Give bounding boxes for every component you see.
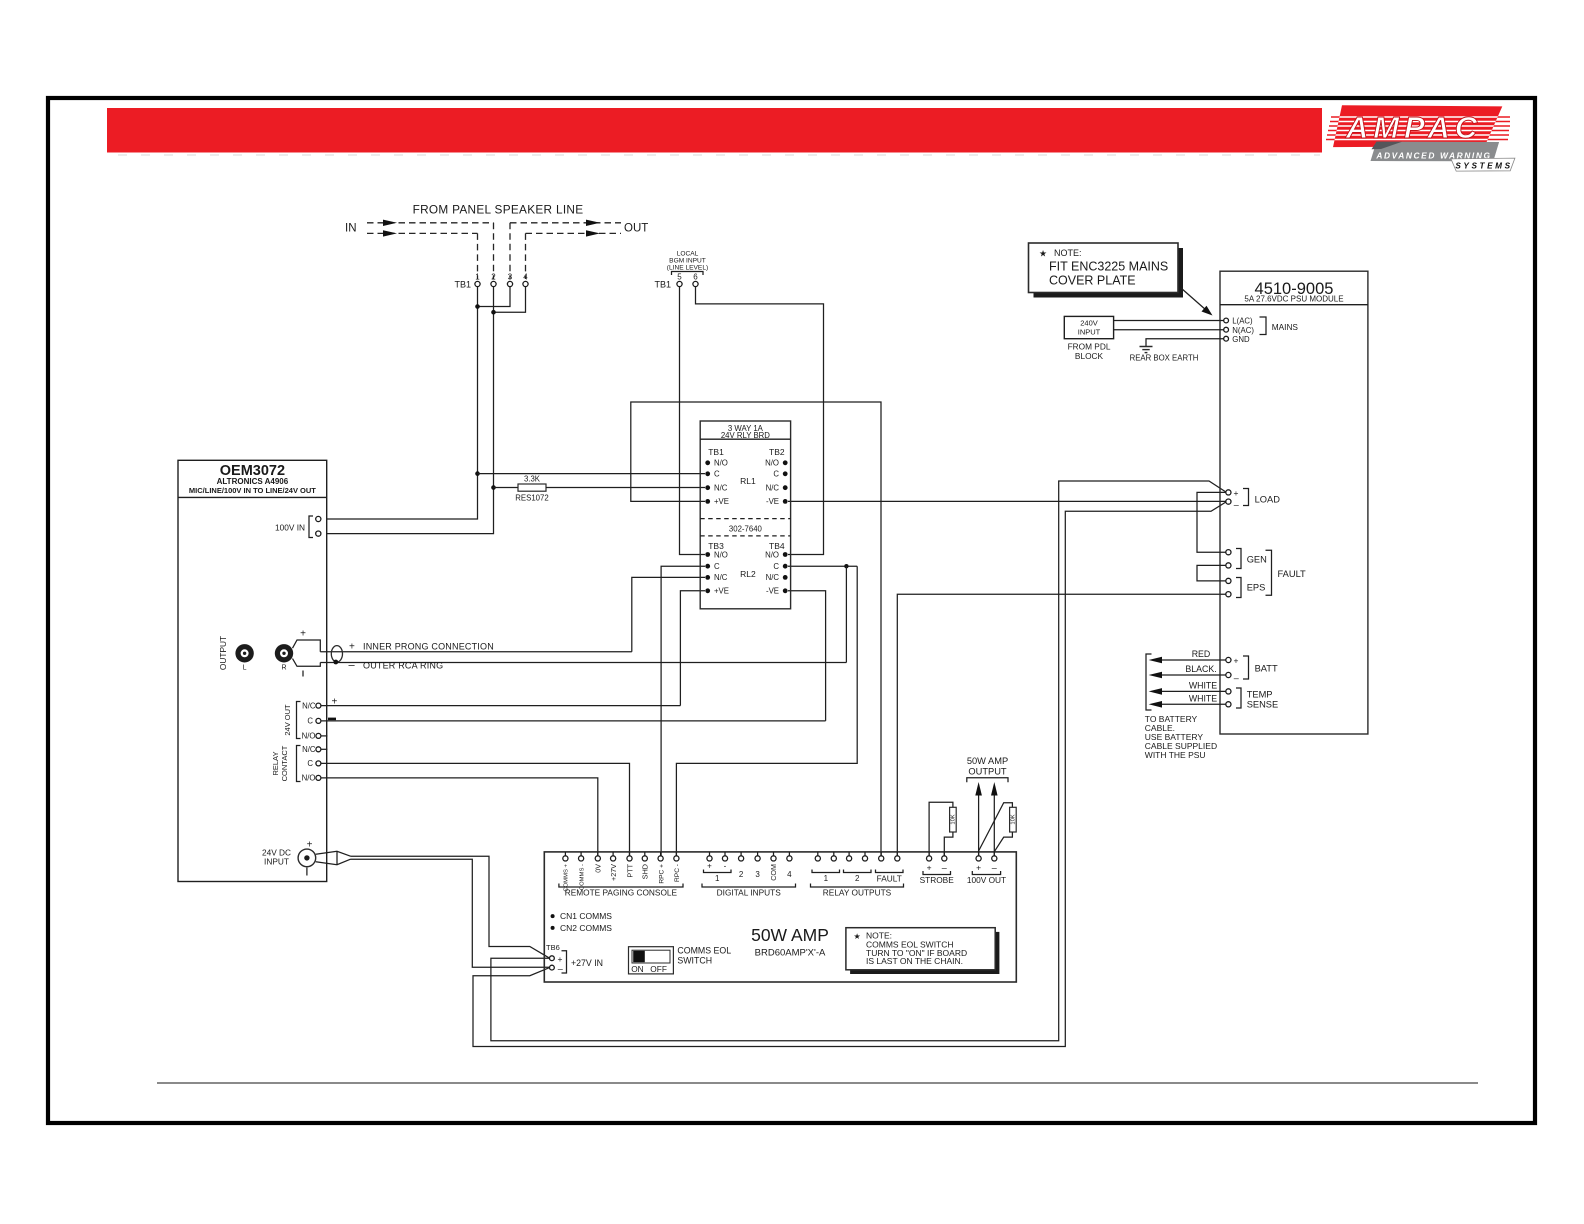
50W AMP board BRD60AMP	[544, 852, 1016, 982]
100V IN terminals	[275, 516, 321, 538]
svg-text:RES1072: RES1072	[515, 494, 548, 503]
svg-text:RPC -: RPC -	[674, 864, 681, 882]
svg-text:5: 5	[677, 273, 682, 282]
footer rule line	[157, 1082, 1478, 1084]
svg-text:50W AMP: 50W AMP	[967, 756, 1008, 766]
svg-text:+: +	[927, 863, 932, 873]
arrow from note to PSU	[1181, 288, 1206, 310]
comms eol switch	[629, 946, 732, 974]
svg-text:ON: ON	[631, 964, 643, 974]
svg-text:3: 3	[755, 870, 760, 879]
OEM3072 box	[178, 460, 327, 881]
svg-text:TEMP: TEMP	[1247, 690, 1273, 700]
FAULT bracket	[1266, 550, 1272, 595]
NOTE box: FIT ENC3225 MAINS COVER PLATE	[1029, 243, 1184, 298]
svg-text:NOTE:: NOTE:	[1054, 248, 1082, 258]
svg-text:N/O: N/O	[302, 732, 316, 741]
svg-text:BATT: BATT	[1255, 664, 1278, 674]
wire L(AC)	[1114, 320, 1224, 322]
svg-text:REAR BOX EARTH: REAR BOX EARTH	[1130, 354, 1199, 363]
battery cable note text	[1145, 714, 1217, 760]
svg-text:2: 2	[739, 870, 744, 879]
LOCAL BGM INPUT labels	[667, 251, 708, 276]
svg-text:+VE: +VE	[714, 497, 729, 506]
svg-text:N/C: N/C	[766, 484, 780, 493]
speaker line IN dashed pair	[367, 222, 494, 224]
wire relay contact N/O to amp 0V	[321, 778, 598, 856]
svg-text:-VE: -VE	[766, 497, 779, 506]
svg-text:+: +	[976, 863, 981, 873]
svg-text:N/C: N/C	[714, 573, 728, 582]
PSU GEN terminals	[1226, 549, 1267, 569]
svg-text:+: +	[1234, 656, 1239, 666]
svg-text:N/O: N/O	[765, 459, 779, 468]
svg-text:OUTPUT: OUTPUT	[968, 767, 1007, 777]
R connector - lead	[293, 659, 321, 667]
wire TB1 pin1 down to 100V IN +	[321, 287, 478, 519]
svg-text:100V OUT: 100V OUT	[967, 875, 1006, 885]
dashed risers to TB1 pins	[477, 233, 479, 279]
wire relay TB3 C down to amp RPC+	[661, 566, 705, 856]
svg-text:302-7640: 302-7640	[729, 525, 763, 534]
svg-text:RL1: RL1	[740, 476, 756, 486]
svg-text:2: 2	[855, 874, 860, 883]
remote paging console bracket	[559, 884, 683, 888]
svg-text:C: C	[773, 470, 779, 479]
remote paging console terminal labels	[564, 863, 682, 891]
wire relay TB3 N/C to inner prong wire	[632, 577, 705, 651]
svg-text:TB6: TB6	[546, 943, 560, 952]
svg-text:N/C: N/C	[714, 484, 728, 493]
battery cable arrows RED BLACK WHITE WHITE	[1146, 649, 1226, 710]
24V DC INPUT connector	[262, 840, 351, 876]
svg-text:N/C: N/C	[766, 573, 780, 582]
svg-text:REMOTE PAGING CONSOLE: REMOTE PAGING CONSOLE	[565, 888, 678, 898]
svg-text:COM: COM	[769, 864, 778, 881]
wire N(AC)	[1114, 329, 1224, 331]
svg-text:DIGITAL INPUTS: DIGITAL INPUTS	[717, 888, 782, 898]
terminal block TB1 (speaker)	[454, 273, 528, 290]
svg-text:+VE: +VE	[714, 587, 729, 596]
svg-text:SWITCH: SWITCH	[677, 956, 712, 966]
banner compression artifact	[118, 154, 1320, 156]
svg-text:RELAY: RELAY	[271, 751, 280, 775]
terminal block TB1 (BGM)	[654, 273, 698, 290]
svg-text:★: ★	[854, 932, 861, 941]
svg-text:★: ★	[1039, 249, 1047, 259]
svg-text:IS LAST ON THE CHAIN.: IS LAST ON THE CHAIN.	[866, 956, 963, 966]
wire 24V OUT - to relay TB4 -VE	[321, 720, 826, 722]
svg-text:FIT ENC3225 MAINS: FIT ENC3225 MAINS	[1049, 260, 1168, 274]
svg-text:N/C: N/C	[302, 745, 316, 754]
wire TB6 - down bottom loop up to PSU LOAD - funnel	[473, 502, 1226, 1047]
red title banner	[107, 108, 1322, 153]
page border frame	[48, 98, 1535, 1123]
svg-text:BGM INPUT: BGM INPUT	[669, 258, 706, 265]
wire 24VDC + pair to TB6 +	[351, 856, 550, 958]
svg-text:-VE: -VE	[766, 587, 779, 596]
jumper GEN to EPS	[1197, 565, 1226, 581]
PSU mains pins	[1224, 317, 1299, 344]
svg-text:10K: 10K	[1011, 814, 1017, 824]
svg-text:N/C: N/C	[302, 701, 316, 710]
svg-text:3.3K: 3.3K	[524, 475, 541, 484]
RELAY CONTACT terminal group	[271, 745, 321, 783]
svg-text:+: +	[307, 840, 313, 851]
ground symbol rear box earth	[1140, 347, 1153, 353]
svg-text:FAULT: FAULT	[877, 874, 902, 884]
svg-text:L(AC): L(AC)	[1232, 317, 1253, 326]
svg-text:C: C	[307, 717, 313, 726]
svg-text:OFF: OFF	[650, 964, 667, 974]
svg-text:SENSE: SENSE	[1247, 700, 1279, 710]
direction arrows on speaker line	[383, 220, 600, 237]
amp terminal row	[563, 852, 997, 861]
svg-text:RED: RED	[1192, 649, 1211, 659]
svg-text:MAINS: MAINS	[1272, 322, 1299, 332]
3 WAY 1A 24V RLY BRD relay board	[700, 421, 790, 609]
svg-text:OUTPUT: OUTPUT	[218, 636, 228, 670]
svg-text:TB1: TB1	[454, 280, 471, 290]
wire relay TB1 +VE bridge over to amp FAULT terminal	[631, 402, 881, 856]
wire + inner prong (to relay TB3 N/C)	[320, 651, 632, 653]
AMPAC logo	[1323, 105, 1515, 171]
svg-text:L: L	[243, 665, 247, 672]
svg-text:–: –	[1234, 673, 1239, 683]
svg-text:CN2 COMMS: CN2 COMMS	[560, 923, 612, 933]
svg-text:COMMS -: COMMS -	[579, 864, 585, 890]
svg-text:TB2: TB2	[769, 447, 785, 457]
wire TB1 pin2 down to 100V IN -	[321, 287, 494, 534]
svg-text:GND: GND	[1232, 335, 1250, 344]
50W AMP OUTPUT arrows	[967, 756, 1008, 856]
speaker line OUT dashed pair	[510, 222, 621, 224]
svg-text:BLACK.: BLACK.	[1185, 664, 1216, 674]
svg-text:4: 4	[787, 870, 792, 879]
100V OUT EOL resistor 10K	[979, 803, 1017, 852]
svg-text:0V: 0V	[594, 864, 603, 873]
svg-text:–: –	[1234, 500, 1239, 510]
svg-text:N/O: N/O	[714, 550, 728, 559]
svg-text:FROM PDL: FROM PDL	[1068, 342, 1111, 352]
PSU EPS terminals	[1226, 578, 1266, 598]
svg-text:–: –	[942, 863, 947, 873]
svg-text:WHITE: WHITE	[1189, 680, 1217, 690]
svg-text:C: C	[773, 562, 779, 571]
TB6 +27V IN terminals	[546, 943, 603, 974]
svg-text:BRD60AMP'X'-A: BRD60AMP'X'-A	[755, 948, 826, 959]
jumper pins 2-4	[494, 287, 526, 313]
relay outputs bracket	[811, 884, 904, 888]
strobe EOL resistor 10K	[929, 802, 957, 856]
svg-text:WITH THE PSU: WITH THE PSU	[1145, 750, 1206, 760]
svg-text:COVER PLATE: COVER PLATE	[1049, 274, 1136, 288]
OUTPUT RCA connectors	[218, 636, 293, 672]
svg-text:COMMS EOL: COMMS EOL	[677, 946, 731, 956]
svg-text:C: C	[714, 470, 720, 479]
CN1 CN2 COMMS bullets	[551, 911, 613, 933]
svg-text:INNER PRONG CONNECTION: INNER PRONG CONNECTION	[363, 641, 494, 651]
svg-text:24V RLY BRD: 24V RLY BRD	[721, 431, 770, 440]
svg-text:LOAD: LOAD	[1255, 495, 1281, 505]
svg-text:RPC +: RPC +	[658, 864, 665, 884]
svg-text:TB1: TB1	[654, 280, 671, 290]
svg-text:50W AMP: 50W AMP	[751, 925, 829, 945]
svg-text:FAULT: FAULT	[1278, 569, 1307, 579]
svg-text:GEN: GEN	[1247, 555, 1267, 565]
svg-text:1: 1	[475, 273, 480, 282]
svg-text:TB1: TB1	[708, 447, 724, 457]
svg-text:BLOCK: BLOCK	[1075, 351, 1104, 361]
digital inputs bracket	[702, 884, 796, 888]
wire amp FAULT2 up over to PSU EPS	[897, 594, 1226, 856]
svg-text:-: -	[724, 862, 727, 871]
stub 24V OUT N/O	[321, 735, 328, 737]
svg-text:1: 1	[715, 874, 720, 883]
svg-text:+27V: +27V	[609, 864, 618, 881]
svg-text:+: +	[300, 629, 306, 640]
svg-text:CN1 COMMS: CN1 COMMS	[560, 911, 612, 921]
PSU module 4510-9005 box	[1220, 271, 1368, 734]
svg-text:WHITE: WHITE	[1189, 693, 1217, 703]
relay outputs labels	[812, 870, 903, 884]
strobe terminal labels	[920, 863, 955, 886]
svg-text:FROM PANEL SPEAKER LINE: FROM PANEL SPEAKER LINE	[413, 203, 584, 217]
svg-text:N/O: N/O	[714, 459, 728, 468]
svg-text:240V: 240V	[1080, 319, 1098, 328]
svg-text:+: +	[349, 642, 355, 653]
svg-text:–: –	[558, 964, 563, 974]
svg-text:24V OUT: 24V OUT	[283, 704, 292, 736]
svg-text:INPUT: INPUT	[1078, 328, 1101, 337]
R connector + lead	[293, 640, 321, 652]
NOTE box: comms eol switch chain	[846, 928, 999, 974]
svg-text:IN: IN	[345, 223, 357, 235]
wire relay contact C to amp PTT	[321, 763, 630, 855]
svg-text:10K: 10K	[951, 814, 957, 824]
jumper LOAD+ to GEN	[1197, 492, 1226, 552]
svg-text:+27V IN: +27V IN	[571, 958, 603, 968]
resistor RES1072 3.3K	[475, 471, 705, 502]
svg-text:SYSTEMS: SYSTEMS	[1455, 162, 1512, 171]
svg-text:N(AC): N(AC)	[1232, 326, 1254, 335]
svg-text:OUT: OUT	[624, 223, 648, 235]
wire 24VDC - pair to TB6 -	[351, 859, 550, 967]
svg-text:INPUT: INPUT	[264, 857, 289, 867]
svg-text:STROBE: STROBE	[920, 875, 955, 885]
wire GND to rear box earth	[1146, 339, 1224, 346]
jumper pins 1-3	[478, 287, 511, 307]
svg-text:PTT: PTT	[625, 863, 634, 877]
svg-text:OUTER RCA RING: OUTER RCA RING	[363, 660, 443, 670]
svg-text:C: C	[714, 562, 720, 571]
svg-text:SHD: SHD	[641, 864, 650, 879]
svg-text:4: 4	[523, 273, 528, 282]
24V OUT terminal group	[283, 697, 338, 741]
svg-text:EPS: EPS	[1247, 583, 1266, 593]
240V INPUT box	[1064, 316, 1113, 361]
svg-text:6: 6	[693, 273, 698, 282]
svg-text:(LINE LEVEL): (LINE LEVEL)	[667, 265, 708, 272]
svg-text:RL2: RL2	[740, 569, 756, 579]
svg-text:R: R	[281, 665, 286, 672]
wire relay TB2 -VE to PSU LOAD -	[788, 500, 1226, 502]
wire BGM pin5 to relay TB3 N/O	[680, 287, 706, 555]
PSU LOAD terminals	[1226, 488, 1280, 510]
svg-text:MIC/LINE/100V IN TO LINE/24V: MIC/LINE/100V IN TO LINE/24V OUT	[189, 486, 316, 495]
svg-text:–: –	[992, 863, 997, 873]
svg-text:+: +	[1234, 488, 1239, 498]
wire 24V OUT + to relay TB3 +VE	[321, 705, 680, 707]
wire BGM pin6 over to relay TB4 N/O	[696, 287, 824, 555]
PSU BATT terminals	[1226, 656, 1278, 684]
svg-text:5A 27.6VDC PSU MODULE: 5A 27.6VDC PSU MODULE	[1244, 295, 1343, 304]
svg-text:2: 2	[491, 273, 496, 282]
svg-text:N/O: N/O	[765, 550, 779, 559]
svg-text:CONTACT: CONTACT	[280, 745, 289, 781]
svg-text:N/O: N/O	[302, 774, 316, 783]
RCA plug oval	[331, 646, 342, 662]
svg-text:AMPAC: AMPAC	[1345, 110, 1482, 145]
wire relay TB4 C to outer ring and RPC- riser	[788, 565, 857, 567]
PSU TEMP SENSE terminals	[1226, 688, 1278, 710]
stub relay contact N/C	[321, 748, 328, 750]
svg-text:1: 1	[824, 874, 829, 883]
svg-text:LOCAL: LOCAL	[677, 251, 699, 258]
svg-text:3: 3	[508, 273, 513, 282]
svg-text:+: +	[558, 954, 563, 964]
wire relay TB4 -VE down joins 24V OUT -	[788, 591, 826, 721]
svg-text:C: C	[307, 759, 313, 768]
svg-text:–: –	[349, 660, 356, 672]
svg-text:100V IN: 100V IN	[275, 523, 305, 533]
wire - outer ring (to relay TB4 C)	[320, 662, 846, 664]
svg-text:RELAY OUTPUTS: RELAY OUTPUTS	[823, 888, 892, 898]
wire relay TB3 +VE down joins 24V OUT +	[680, 591, 705, 706]
100V OUT terminal labels	[967, 863, 1006, 886]
svg-text:+: +	[707, 862, 712, 871]
digital inputs labels	[704, 862, 793, 884]
wire TB6 + down bottom loop up to PSU LOAD + funnel	[491, 481, 1226, 1041]
